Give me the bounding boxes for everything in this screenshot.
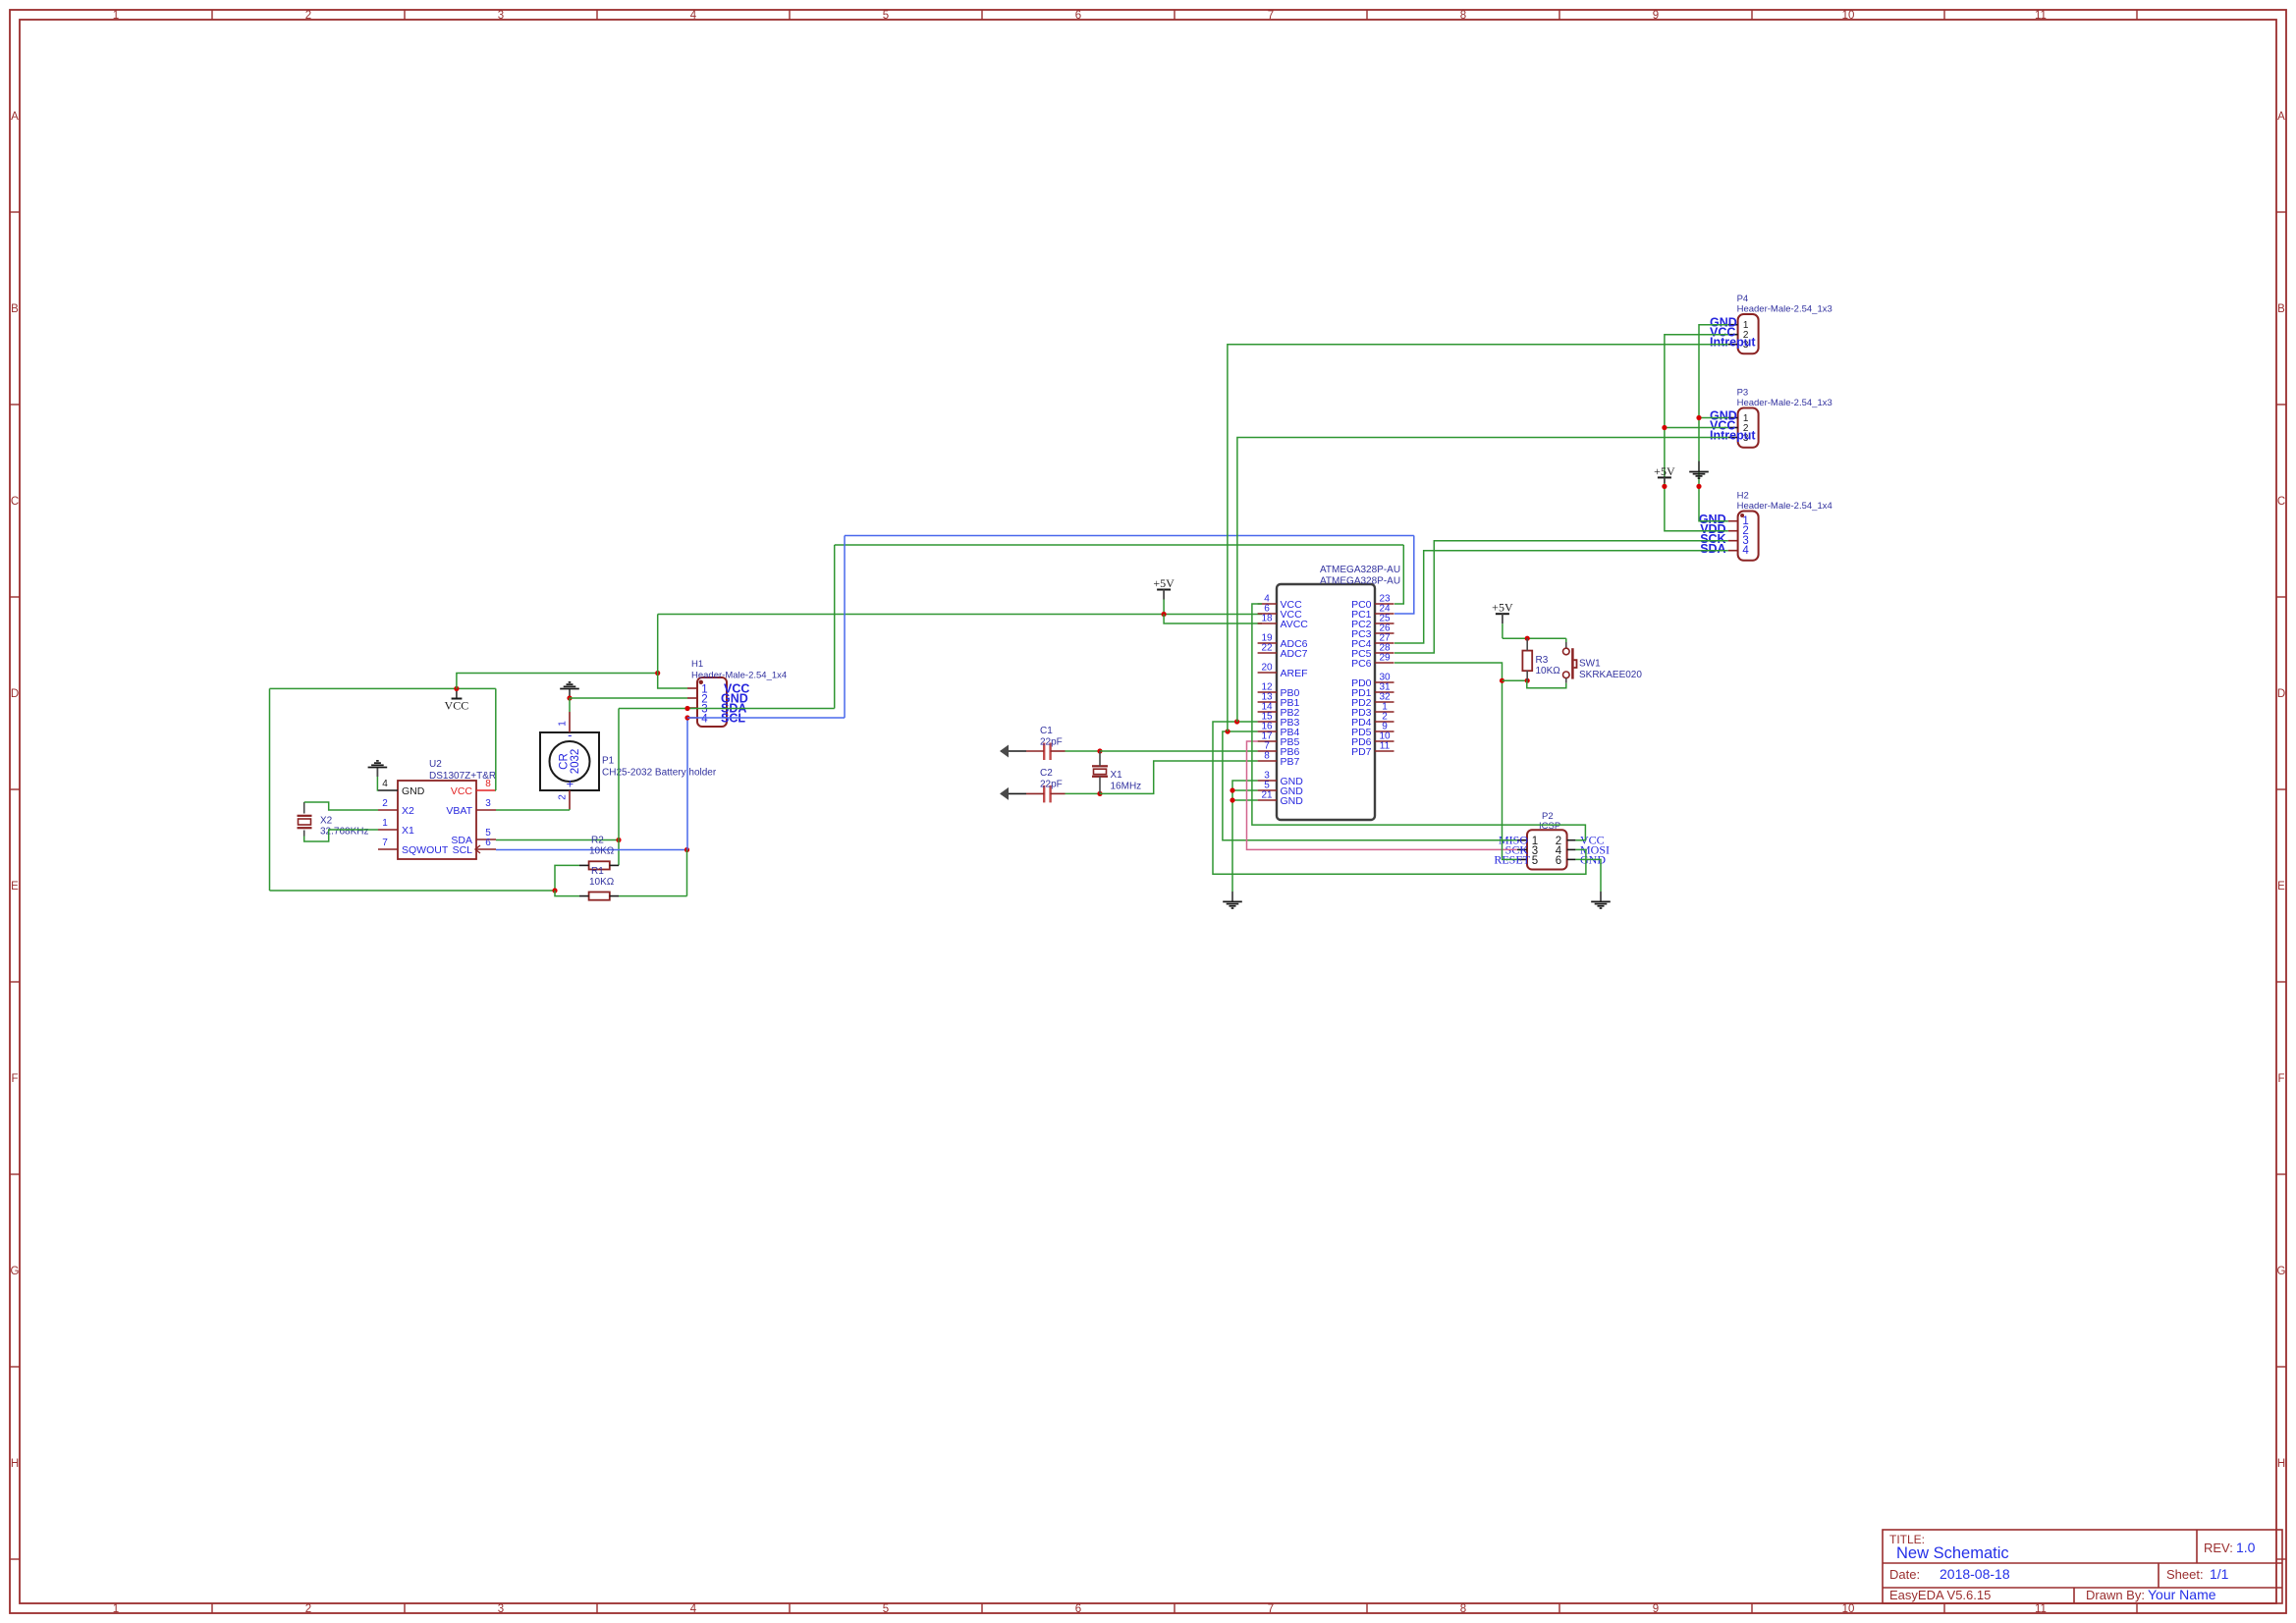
wire P4 VCC column: [1665, 335, 1728, 531]
svg-text:D: D: [11, 688, 19, 700]
junction SCL at H1 pin4: [684, 715, 689, 720]
P2 pin 2: [1567, 839, 1576, 841]
U1 pin 17 PB5: [1258, 740, 1277, 742]
svg-text:4: 4: [382, 779, 388, 789]
svg-text:AREF: AREF: [1281, 668, 1308, 679]
U1 pin 10 PD6: [1375, 740, 1394, 742]
U1 pin 13 PB1: [1258, 701, 1277, 703]
U1 pin 26 PC3: [1375, 632, 1394, 634]
svg-text:R2: R2: [591, 836, 604, 846]
wire +5V to R3 top and SW1: [1503, 637, 1566, 639]
switch SW1: [1565, 638, 1567, 642]
U1 pin 27 PC4: [1375, 642, 1394, 644]
title block Sheet divider: [2158, 1563, 2159, 1588]
U1 pin 15 PB3: [1258, 721, 1277, 723]
svg-text:PD7: PD7: [1351, 746, 1372, 758]
junction R3 top: [1525, 636, 1530, 641]
svg-text:X2: X2: [320, 816, 333, 827]
wire gnd flag to U2 pin4: [376, 777, 379, 790]
P2 pin 3: [1517, 848, 1527, 850]
svg-text:1: 1: [558, 721, 569, 727]
header P3 body: [1738, 408, 1759, 448]
H2 pin1 indicator dot: [1740, 514, 1744, 517]
U1 pin 12 PB0: [1258, 691, 1277, 693]
wire H2 SDA to PC4: [1394, 551, 1728, 643]
U2 pin 6 SCL: [476, 848, 496, 850]
svg-text:10KΩ: 10KΩ: [589, 877, 615, 888]
wire RESET to R3 bottom: [1503, 679, 1528, 681]
U1 pin 9 PD5: [1375, 730, 1394, 732]
title block row divider 2: [1883, 1587, 2282, 1589]
wire U1 GND pin21: [1232, 799, 1258, 801]
P3 pin 3: [1728, 437, 1738, 439]
svg-text:EasyEDA V5.6.15: EasyEDA V5.6.15: [1889, 1588, 1991, 1602]
svg-text:ATMEGA328P-AU: ATMEGA328P-AU: [1320, 565, 1400, 575]
svg-text:A: A: [2277, 111, 2285, 123]
wire SCL blue top run: [845, 535, 1414, 537]
wire H2 SCK to PC5: [1394, 541, 1728, 653]
H1 pin 4: [687, 717, 697, 719]
U2 pin 1 X1: [378, 829, 398, 831]
svg-text:Drawn By:: Drawn By:: [2086, 1588, 2145, 1602]
junction gnd column: [1696, 484, 1701, 489]
svg-text:3: 3: [498, 1603, 504, 1615]
svg-text:20: 20: [1261, 663, 1273, 674]
R3 leads: [1526, 638, 1528, 650]
junction +5V rail: [1162, 612, 1167, 617]
U1 pin 22 ADC7: [1258, 652, 1277, 654]
P2 pin 1: [1517, 839, 1527, 841]
svg-text:2032: 2032: [570, 749, 581, 775]
ground arrow C2: [1001, 792, 1026, 794]
svg-text:8: 8: [1264, 751, 1270, 762]
svg-text:PB7: PB7: [1281, 756, 1300, 768]
U1 pin 32 PD2: [1375, 701, 1394, 703]
svg-text:8: 8: [1460, 10, 1466, 22]
svg-text:SCL: SCL: [453, 844, 473, 856]
U1 pin 31 PD1: [1375, 691, 1394, 693]
resistor R2 body: [589, 861, 610, 869]
ground arrow C1: [1001, 750, 1026, 752]
wire R1 left to VCC loop: [555, 891, 579, 896]
junction RESET split: [1500, 678, 1504, 683]
svg-text:4: 4: [1742, 545, 1749, 557]
junction PB3 MOSI: [1234, 719, 1239, 724]
U1 pin 11 PD7: [1375, 750, 1394, 752]
wire XTAL2 to PB7: [1100, 761, 1258, 793]
svg-text:H1: H1: [691, 659, 703, 670]
title block row divider 1: [1883, 1562, 2282, 1564]
svg-text:PC6: PC6: [1351, 658, 1372, 670]
svg-text:SDA: SDA: [1700, 542, 1725, 556]
svg-text:G: G: [11, 1266, 20, 1277]
svg-text:18: 18: [1261, 614, 1273, 624]
svg-text:Your Name: Your Name: [2148, 1587, 2216, 1602]
wire X2 top loop to U2 pin2: [304, 802, 378, 810]
svg-text:32.768KHz: 32.768KHz: [320, 827, 368, 838]
crystal X1 leads: [1099, 751, 1101, 766]
svg-text:R1: R1: [591, 866, 604, 877]
frame row ticks right: [2276, 211, 2286, 213]
H1 pin 1: [687, 687, 697, 689]
svg-text:Intreput: Intreput: [1710, 336, 1756, 350]
junction P3 VCC: [1662, 425, 1667, 430]
H1 pin 3: [687, 707, 697, 709]
junction GND pin21: [1230, 797, 1234, 802]
R1 leads: [579, 895, 589, 897]
svg-text:22pF: 22pF: [1040, 737, 1063, 748]
svg-text:2018-08-18: 2018-08-18: [1940, 1566, 2010, 1582]
svg-text:VCC: VCC: [451, 785, 473, 797]
wire VCC loop bottom to R junction: [270, 890, 556, 892]
svg-text:B: B: [11, 303, 19, 315]
wire P1 pin1 to gnd junction: [569, 698, 571, 712]
wire SCL blue riser x860: [844, 536, 846, 719]
wire R2 left to VCC loop: [555, 865, 579, 891]
svg-text:4: 4: [690, 1603, 697, 1615]
svg-text:U2: U2: [429, 759, 442, 770]
svg-text:10: 10: [1842, 1603, 1855, 1615]
wire VCC riser to +5V rail: [657, 615, 659, 674]
svg-text:D: D: [2277, 688, 2285, 700]
wire VCC left loop vertical: [269, 688, 271, 891]
U1 pin 4 VCC: [1258, 603, 1277, 605]
crystal X2 body: [298, 815, 312, 817]
R2 leads: [579, 864, 589, 866]
wire P3 GND stub: [1699, 417, 1728, 419]
svg-text:B: B: [2277, 303, 2285, 315]
U1 pin 20 AREF: [1258, 672, 1277, 674]
ground flag right column: [1698, 461, 1700, 472]
svg-text:1: 1: [382, 818, 388, 829]
H2 pin 1: [1728, 520, 1738, 522]
U1 pin 2 PD4: [1375, 721, 1394, 723]
wire C2 to junction: [1066, 792, 1101, 794]
svg-text:+: +: [567, 777, 574, 791]
wire MISO P2 pin1 to PB4: [1223, 731, 1517, 840]
H1 pin 2: [687, 697, 697, 699]
svg-text:C1: C1: [1040, 726, 1053, 736]
svg-text:P4: P4: [1737, 294, 1749, 304]
U1 pin 14 PB2: [1258, 711, 1277, 713]
svg-text:E: E: [2277, 881, 2285, 893]
svg-text:C: C: [2277, 496, 2285, 508]
svg-text:-: -: [568, 728, 572, 742]
P3 pin 1: [1728, 417, 1738, 419]
H2 pin 2: [1728, 530, 1738, 532]
svg-text:ADC7: ADC7: [1281, 648, 1308, 660]
wire gnd junction to H1 pin2: [570, 697, 687, 699]
svg-text:Header-Male-2.54_1x4: Header-Male-2.54_1x4: [691, 671, 787, 681]
svg-text:C: C: [11, 496, 19, 508]
frame column ticks top: [211, 10, 213, 20]
svg-text:8: 8: [1460, 1603, 1466, 1615]
wire VCC drop to U2 pin8: [495, 688, 497, 790]
wire R1 right to SCL junction: [619, 895, 687, 897]
svg-text:+5V: +5V: [1492, 601, 1513, 615]
U2 pin 4 GND: [378, 789, 398, 791]
svg-text:VBAT: VBAT: [446, 805, 472, 817]
svg-text:2: 2: [558, 794, 569, 800]
U1 pin 16 PB4: [1258, 730, 1277, 732]
svg-text:5: 5: [1532, 855, 1538, 867]
P2 pin 5: [1517, 858, 1527, 860]
header P4 body: [1738, 314, 1759, 353]
wire R1 riser green: [686, 850, 688, 896]
ground flag below U1: [1231, 892, 1233, 901]
svg-text:AVCC: AVCC: [1281, 619, 1309, 630]
svg-text:10: 10: [1842, 10, 1855, 22]
svg-text:+5V: +5V: [1153, 576, 1175, 590]
capacitor C2: [1043, 785, 1045, 803]
wire P4 Intreput to PB4: [1228, 345, 1728, 731]
svg-text:ATMEGA328P-AU: ATMEGA328P-AU: [1320, 576, 1400, 587]
svg-text:1: 1: [113, 10, 119, 22]
svg-text:4: 4: [690, 10, 697, 22]
U1 pin 1 PD3: [1375, 711, 1394, 713]
junction VCC at H1 column: [655, 671, 660, 676]
svg-text:SW1: SW1: [1579, 659, 1601, 670]
wire +5V to AVCC pin18: [1164, 615, 1262, 624]
H2 pin 3: [1728, 540, 1738, 542]
svg-text:R3: R3: [1536, 655, 1549, 666]
junction VCC flag: [454, 686, 459, 691]
wire SCL blue horizontal from H1: [687, 717, 845, 719]
svg-text:6: 6: [1075, 1603, 1081, 1615]
svg-text:Header-Male-2.54_1x4: Header-Male-2.54_1x4: [1737, 501, 1832, 512]
svg-text:1: 1: [113, 1603, 119, 1615]
U2 pin 7 SQWOUT: [378, 848, 398, 850]
svg-text:Header-Male-2.54_1x3: Header-Male-2.54_1x3: [1737, 398, 1832, 408]
wire U1 GND pin5: [1232, 789, 1258, 791]
svg-text:+5V: +5V: [1654, 464, 1675, 478]
svg-text:Header-Male-2.54_1x3: Header-Male-2.54_1x3: [1737, 304, 1832, 315]
wire SCL blue drop to PC1 pin24: [1394, 536, 1414, 615]
wire P2 VCC to U1 pin4: [1252, 604, 1586, 840]
wire VCC rail horizontal y701: [270, 687, 496, 689]
junction XTAL2: [1097, 791, 1102, 796]
wire VCC up branch: [457, 674, 658, 689]
svg-text:1/1: 1/1: [2210, 1566, 2229, 1582]
svg-text:SQWOUT: SQWOUT: [402, 844, 449, 856]
P2 pin 4: [1567, 848, 1576, 850]
junction R3 bottom: [1525, 678, 1530, 683]
U2 pin 2 X2: [378, 809, 398, 811]
capacitor C1: [1043, 743, 1045, 761]
svg-text:2: 2: [305, 10, 311, 22]
junction SDA at H1 pin3: [684, 706, 689, 711]
svg-text:9: 9: [1653, 1603, 1659, 1615]
svg-text:X1: X1: [402, 825, 414, 837]
header P2 ICSP body: [1527, 830, 1567, 869]
svg-text:ICSP: ICSP: [1539, 821, 1560, 832]
wire SDA horizontal to H1 pin3: [619, 708, 835, 710]
ground flag above U2 pin4: [376, 768, 378, 778]
U2 pin 8 VCC: [476, 789, 496, 791]
svg-text:6: 6: [1556, 855, 1561, 867]
svg-text:X2: X2: [402, 805, 414, 817]
wire U2 SCL blue: [496, 849, 687, 851]
junction PB4 MISO: [1226, 729, 1230, 733]
wire SDA drop to PC0 pin23: [1394, 545, 1403, 604]
svg-text:H: H: [11, 1458, 19, 1470]
crystal X1 body: [1092, 765, 1108, 767]
svg-text:21: 21: [1261, 790, 1273, 801]
wire SCL blue vertical to H1 pin4: [686, 718, 688, 850]
svg-text:11: 11: [2035, 1603, 2047, 1615]
U2 pin 3 VBAT: [476, 809, 496, 811]
svg-text:5: 5: [883, 10, 889, 22]
P4 pin 1: [1728, 324, 1738, 326]
P1 pin 2 bottom: [569, 790, 571, 809]
svg-text:P3: P3: [1737, 388, 1749, 399]
svg-text:SKRKAEE020: SKRKAEE020: [1579, 670, 1642, 680]
U1 pin 3 GND: [1258, 780, 1277, 782]
svg-text:X1: X1: [1111, 770, 1123, 781]
svg-text:F: F: [11, 1073, 18, 1085]
junction battery gnd: [567, 695, 572, 700]
wire junction to PB6: [1100, 750, 1258, 752]
svg-text:7: 7: [1268, 1603, 1274, 1615]
U1 pin 23 PC0: [1375, 603, 1394, 605]
U1 pin 7 PB6: [1258, 750, 1277, 752]
svg-text:GND: GND: [1281, 795, 1304, 807]
P4 pin 3: [1728, 344, 1738, 346]
junction P3 GND: [1696, 415, 1701, 420]
svg-text:8: 8: [485, 779, 491, 789]
svg-text:10KΩ: 10KΩ: [589, 846, 615, 857]
crystal X2 leads: [303, 802, 305, 814]
svg-text:P1: P1: [602, 756, 615, 767]
svg-text:11: 11: [1380, 741, 1391, 752]
battery holder P1 body: [540, 732, 599, 790]
svg-text:7: 7: [382, 838, 388, 848]
SW1 lower stub: [1565, 678, 1567, 683]
U2 pin 5 SDA: [476, 839, 496, 840]
U1 pin 24 PC1: [1375, 613, 1394, 615]
svg-text:29: 29: [1379, 653, 1391, 664]
svg-text:New Schematic: New Schematic: [1896, 1544, 2009, 1562]
wire U2 SDA to junction: [496, 839, 619, 841]
svg-text:F: F: [2277, 1073, 2284, 1085]
wire SDA riser x849: [834, 545, 836, 709]
svg-text:Date:: Date:: [1889, 1567, 1920, 1582]
U1 pin 6 VCC: [1258, 613, 1277, 615]
svg-text:VCC: VCC: [445, 699, 469, 713]
wire P2 GND pin6: [1575, 859, 1601, 892]
wire U2 VBAT to P1 pin2: [496, 809, 570, 811]
wire SDA riser x630: [618, 709, 620, 866]
svg-text:11: 11: [2035, 10, 2047, 22]
junction XTAL1: [1097, 748, 1102, 753]
P1 pin 1 top: [569, 712, 571, 732]
header H1 body: [697, 677, 727, 727]
U1 pin 19 ADC6: [1258, 642, 1277, 644]
U1 pin 28 PC5: [1375, 652, 1394, 654]
VCC power flag: [456, 688, 458, 698]
svg-text:22: 22: [1261, 643, 1273, 654]
svg-text:3: 3: [485, 798, 491, 809]
svg-text:6: 6: [485, 838, 491, 848]
svg-text:3: 3: [498, 10, 504, 22]
U1 pin 5 GND: [1258, 789, 1277, 791]
junction +5V column: [1662, 484, 1667, 489]
U1 pin 30 PD0: [1375, 681, 1394, 683]
wire SDA top run to PC0: [835, 544, 1404, 546]
IC U2 DS1307 body: [398, 781, 476, 859]
wire U1 GND pin3: [1232, 781, 1258, 892]
svg-text:5: 5: [883, 1603, 889, 1615]
wire SCK pink P2 pin3 to PB5: [1247, 741, 1517, 849]
svg-text:4: 4: [701, 714, 708, 726]
svg-text:6: 6: [1075, 10, 1081, 22]
wire P3 Intreput to PB3: [1237, 438, 1728, 723]
title block DrawnBy divider: [2073, 1588, 2075, 1603]
junction SDA at R2: [616, 838, 621, 842]
wire C1 to junction: [1066, 750, 1101, 752]
wire VCC to H1 pin1: [658, 674, 687, 689]
wire PC6 reset to R3 column: [1394, 663, 1517, 859]
svg-text:22pF: 22pF: [1040, 780, 1063, 790]
svg-text:C2: C2: [1040, 768, 1053, 779]
svg-text:1.0: 1.0: [2236, 1540, 2256, 1555]
H2 pin 4: [1728, 550, 1738, 552]
wire +5V rail to ATmega VCC pin6: [658, 614, 1262, 616]
U1 pin 8 PB7: [1258, 760, 1277, 762]
svg-text:9: 9: [1653, 10, 1659, 22]
ground flag above P1: [569, 689, 571, 699]
U1 pin 18 AVCC: [1258, 622, 1277, 624]
resistor R3 body: [1522, 651, 1532, 672]
U1 pin 25 PC2: [1375, 622, 1394, 624]
frame row ticks left: [10, 211, 20, 213]
U1 pin 29 PC6: [1375, 662, 1394, 664]
header H2 body: [1738, 512, 1759, 561]
P3 pin 2: [1728, 427, 1738, 429]
svg-text:GND: GND: [402, 785, 425, 797]
svg-text:CR: CR: [558, 753, 570, 770]
ground flag at P2: [1600, 892, 1602, 901]
svg-text:A: A: [11, 111, 19, 123]
title block REV divider: [2196, 1530, 2198, 1563]
title block outline: [1883, 1530, 2282, 1603]
wire P3 VCC stub: [1665, 427, 1728, 429]
wire P4 GND column: [1699, 325, 1728, 521]
junction SCL at R1 riser: [684, 847, 689, 852]
IC U1 ATMEGA328P body: [1277, 584, 1375, 820]
U1 pin 21 GND: [1258, 799, 1277, 801]
frame column ticks bottom: [211, 1603, 213, 1613]
junction GND pin5: [1230, 787, 1234, 792]
svg-text:Sheet:: Sheet:: [2166, 1567, 2204, 1582]
wire MOSI P2 pin4 to PB3: [1213, 722, 1586, 874]
svg-text:10KΩ: 10KΩ: [1536, 666, 1561, 676]
junction VCC loop R junction: [552, 888, 557, 893]
P4 pin 2: [1728, 334, 1738, 336]
svg-text:2: 2: [382, 798, 388, 809]
svg-text:E: E: [11, 881, 19, 893]
P2 pin 6: [1567, 858, 1576, 860]
svg-text:REV:: REV:: [2204, 1541, 2233, 1555]
H1 pin1 indicator dot: [699, 680, 703, 684]
svg-text:16MHz: 16MHz: [1111, 782, 1142, 792]
svg-text:7: 7: [1268, 10, 1274, 22]
svg-text:H: H: [2277, 1458, 2285, 1470]
svg-text:H2: H2: [1737, 491, 1749, 502]
resistor R1 body: [589, 893, 610, 900]
wire X2 bottom loop to U2 pin1: [304, 830, 378, 841]
svg-text:Intreput: Intreput: [1710, 429, 1756, 443]
